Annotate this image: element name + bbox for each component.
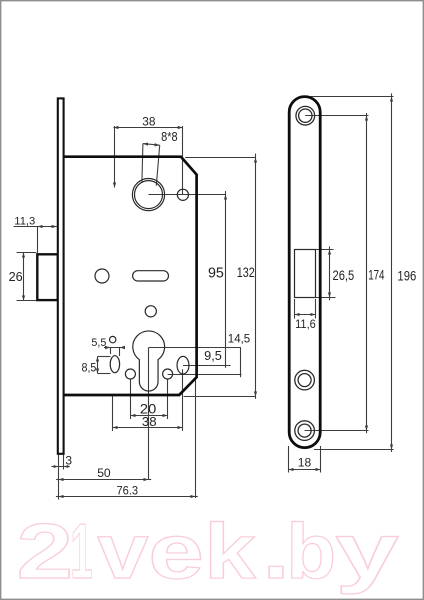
dimension 11,3 arrows [38, 226, 57, 228]
faceplate cutout rectangle [295, 250, 316, 298]
dimension 26 line [23, 253, 25, 301]
reference line oval center [183, 365, 231, 367]
extension 5,5 right [119, 348, 121, 357]
faceplate bottom hole inner [298, 424, 311, 437]
reference line 196 bottom [314, 449, 394, 451]
mounting hole left middle [95, 269, 109, 283]
dimension 5,5 right arrow [120, 346, 126, 350]
reference line 174 top [305, 115, 368, 117]
screw hole right of cylinder stem [163, 369, 173, 379]
svg-text:1: 1 [70, 509, 93, 596]
svg-text:26: 26 [9, 270, 23, 284]
reference 8,5 bottom [98, 373, 111, 375]
dimension 18 line [289, 469, 321, 471]
extension line left of dim 38 top [114, 126, 116, 188]
svg-text:5,5: 5,5 [91, 337, 106, 349]
dimension 174 line [366, 116, 368, 431]
svg-text:26,5: 26,5 [333, 268, 355, 283]
extension 5,5 left [110, 348, 112, 355]
reference line 26,5 top [316, 249, 334, 251]
dimension 8*8 slanted line [143, 144, 160, 146]
reference 8,5 top [98, 356, 111, 358]
svg-text:38: 38 [142, 414, 157, 429]
svg-text:2: 2 [17, 508, 73, 595]
lock body thin features [95, 179, 188, 392]
svg-text:y: y [335, 508, 398, 595]
reference line 132 top [185, 157, 255, 159]
faceplate top hole outer [296, 106, 315, 125]
lock body outline [64, 157, 197, 395]
extension line for 11,3 [37, 227, 39, 253]
extension 18 right [320, 446, 322, 473]
dimension 11,6 line [295, 314, 316, 316]
dimension 5,5 line [104, 347, 122, 349]
svg-text:9,5: 9,5 [204, 349, 222, 363]
extension below faceplate right [63, 454, 65, 470]
screw hole left of cylinder stem [125, 369, 135, 379]
centre line below cylinder [148, 348, 150, 480]
dimension 14,5 line [240, 348, 242, 375]
svg-text:e: e [148, 507, 204, 594]
dimension 38 top line [114, 127, 183, 129]
dimension 3 line [51, 466, 70, 468]
reference line 174 bottom [305, 430, 369, 432]
dimension 38 bottom line [113, 427, 183, 429]
oval hole right [177, 356, 189, 374]
svg-text:8,5: 8,5 [82, 361, 97, 375]
svg-text:196: 196 [397, 268, 416, 283]
reference line 196 top [309, 96, 394, 98]
extension 11,6 left [294, 299, 296, 319]
dimension 196 line [391, 97, 393, 450]
dimension 50 line [56, 479, 58, 481]
svg-text:95: 95 [208, 265, 224, 281]
oval hole 8,5 [110, 356, 119, 373]
small hole below slot [145, 306, 156, 317]
svg-text:11,6: 11,6 [295, 317, 316, 331]
reference line 132 bottom [184, 396, 256, 398]
faceplate side view bar [58, 98, 64, 453]
hub hole inner circle [135, 181, 163, 209]
euro cylinder profile [133, 331, 165, 391]
dimension 3 left arrow [54, 465, 59, 468]
svg-text:3: 3 [65, 454, 72, 468]
dimension 26,5 line [329, 250, 331, 298]
dimension 5,5 left arrow [105, 346, 111, 350]
svg-text:14,5: 14,5 [228, 332, 251, 346]
svg-text:b: b [286, 508, 336, 595]
svg-text:76.3: 76.3 [117, 484, 139, 498]
extension line right of dim 38 top [182, 126, 184, 195]
svg-text:k: k [204, 508, 256, 595]
extension 76.3 right [195, 378, 197, 498]
extension slanted line left of 8*8 [142, 144, 143, 183]
reference line 26 bottom [17, 300, 37, 302]
svg-text:11,3: 11,3 [14, 215, 35, 227]
reference line 26 top [17, 252, 37, 254]
svg-text:50: 50 [97, 466, 111, 480]
extension slanted line right of 8*8 [156, 145, 159, 186]
junction overshoot stubs [149, 93, 392, 496]
faceplate front view outline [289, 97, 320, 448]
reference line cylinder center [149, 347, 241, 349]
dimension 11,3 line [14, 226, 57, 228]
extension below faceplate left [58, 454, 60, 500]
faceplate middle hole inner [298, 374, 311, 387]
dimension 20 line [131, 415, 168, 417]
dimension 3 right arrow [64, 465, 69, 468]
svg-text:v: v [97, 509, 149, 596]
hub hole outer circle [132, 179, 164, 211]
dimension 95 line [225, 195, 227, 366]
svg-text:18: 18 [298, 455, 312, 469]
oval slot middle [133, 271, 169, 281]
small hole 5,5 [110, 336, 116, 342]
svg-text:174: 174 [368, 268, 385, 283]
latch bolt block [37, 254, 58, 300]
extension 20 left [130, 379, 132, 420]
dimension 8,5 line [97, 357, 99, 374]
svg-text:38: 38 [142, 114, 156, 128]
extension 38 bottom left [112, 396, 114, 431]
svg-text:8*8: 8*8 [161, 129, 178, 144]
svg-text:132: 132 [237, 265, 255, 280]
small hole right of hub [177, 189, 188, 200]
extension 18 left [288, 446, 290, 473]
reference line circle center 14,5 [168, 374, 242, 376]
extension 20 right [167, 379, 169, 420]
dimension 132 line [255, 158, 257, 397]
reference line 26,5 bottom [316, 297, 336, 299]
extension 11,6 right [315, 299, 317, 319]
faceplate bottom hole outer [295, 421, 315, 441]
faceplate top hole inner [299, 109, 312, 122]
dimension 76.3 line [56, 496, 59, 498]
center line from hub hole to 95 dim [149, 194, 226, 196]
faceplate middle hole outer [295, 370, 315, 390]
